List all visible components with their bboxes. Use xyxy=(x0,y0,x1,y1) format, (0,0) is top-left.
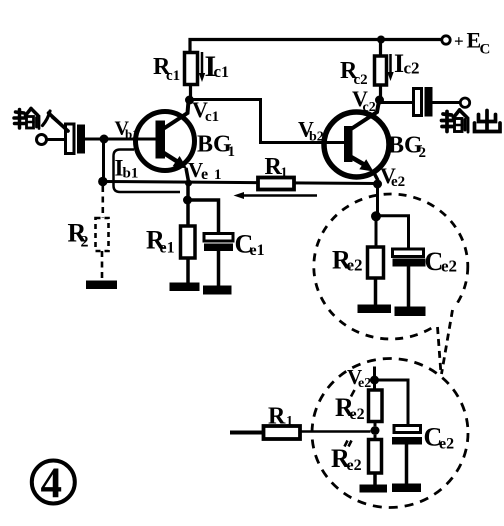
svg-text:+: + xyxy=(454,32,464,51)
svg-text:e2: e2 xyxy=(347,256,363,275)
svg-text:e1: e1 xyxy=(250,242,265,259)
svg-text:e2: e2 xyxy=(358,376,371,391)
svg-text:4: 4 xyxy=(41,460,63,507)
svg-text:e1: e1 xyxy=(160,240,175,257)
svg-text:e2: e2 xyxy=(391,174,405,190)
svg-text:1: 1 xyxy=(214,167,222,183)
svg-text:b1: b1 xyxy=(125,127,139,142)
svg-text:1: 1 xyxy=(228,144,236,160)
svg-text:2: 2 xyxy=(81,234,89,251)
svg-text:C: C xyxy=(480,42,491,58)
svg-text:c2: c2 xyxy=(363,100,376,115)
svg-text:1: 1 xyxy=(281,166,288,181)
svg-text:e2: e2 xyxy=(441,257,457,276)
svg-text:b2: b2 xyxy=(309,130,324,145)
svg-text:e2: e2 xyxy=(347,457,362,474)
svg-text:b1: b1 xyxy=(123,166,139,182)
svg-text:c1: c1 xyxy=(166,68,180,84)
svg-text:2: 2 xyxy=(419,145,427,161)
svg-text:R: R xyxy=(268,404,286,430)
svg-text:c2: c2 xyxy=(404,59,420,78)
svg-text:e2: e2 xyxy=(350,406,365,423)
svg-text:e2: e2 xyxy=(439,436,454,453)
svg-text:c1: c1 xyxy=(214,62,230,81)
svg-text:e: e xyxy=(201,166,208,183)
svg-text:c1: c1 xyxy=(205,109,219,125)
svg-text:1: 1 xyxy=(286,414,293,429)
